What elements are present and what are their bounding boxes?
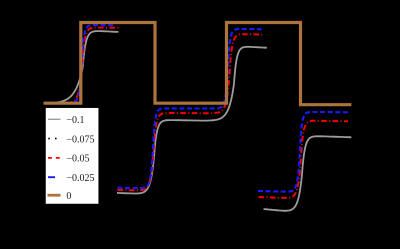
svg-text:−0.025: −0.025 xyxy=(66,173,94,184)
svg-text:−0.05: −0.05 xyxy=(66,154,89,165)
curve -0.025 blue dashed segment 2 xyxy=(117,29,261,188)
svg-text:−0.1: −0.1 xyxy=(66,115,84,126)
curve -0.025 blue dashed segment 3 xyxy=(258,112,350,192)
curve -0.05 red dash-dot segment 2 xyxy=(118,34,263,190)
curve -0.1 gray segment 2 xyxy=(117,47,267,194)
legend sample -0.1 gray line xyxy=(48,118,61,120)
curve -0.1 gray segment 3 xyxy=(264,136,352,211)
legend sample 0 brown thick line xyxy=(48,194,61,197)
legend sample -0.075 black dotted line xyxy=(48,138,60,140)
curve -0.05 red dash-dot segment 1 xyxy=(44,28,118,104)
curve 0 brown square wave xyxy=(44,23,352,105)
svg-text:−0.075: −0.075 xyxy=(66,134,94,145)
curve -0.1 gray segment 1 xyxy=(44,31,118,103)
curve -0.05 red dash-dot segment 3 xyxy=(259,121,349,198)
legend box xyxy=(45,107,99,204)
legend sample -0.025 blue dashed line xyxy=(48,176,61,178)
legend sample -0.05 red dash-dot line xyxy=(48,157,61,159)
svg-text:0: 0 xyxy=(66,191,71,202)
curve -0.025 blue dashed segment 1 xyxy=(44,25,115,103)
